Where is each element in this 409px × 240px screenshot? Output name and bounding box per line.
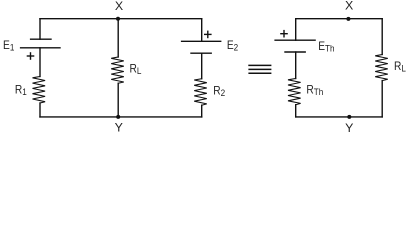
resistor RL (left circuit) — [111, 57, 124, 83]
battery E2 — [182, 41, 221, 53]
svg-text:Y: Y — [115, 121, 123, 135]
node X (left circuit) — [116, 17, 120, 21]
wire: RL to node Y — [117, 83, 119, 117]
svg-text:X: X — [115, 0, 123, 13]
wire: R2 to bottom rail — [201, 105, 203, 117]
resistor RTh — [288, 79, 301, 105]
wire: R1 to bottom rail — [39, 103, 41, 117]
battery ETh — [275, 40, 315, 52]
wire: top rail down to ETh — [295, 19, 297, 41]
wire: E2 to R2 — [201, 53, 203, 78]
svg-text:X: X — [345, 0, 353, 13]
polarity + of E2 — [205, 31, 211, 37]
resistor R2 — [194, 79, 207, 106]
wire: right circuit bottom rail (Y) — [296, 116, 383, 118]
battery E1 — [21, 39, 60, 48]
node X (right circuit) — [346, 17, 350, 21]
svg-text:E2: E2 — [227, 39, 238, 52]
wire: left circuit bottom rail (Y) — [40, 116, 202, 118]
svg-text:Y: Y — [345, 121, 353, 135]
equivalence symbol — [248, 65, 271, 73]
svg-text:RL: RL — [130, 63, 142, 76]
wire: node X to RL — [117, 19, 119, 57]
wire: RTh to bottom rail — [295, 105, 297, 117]
node Y (left circuit) — [116, 115, 120, 119]
svg-text:RTh: RTh — [306, 84, 323, 97]
svg-text:E1: E1 — [3, 39, 14, 52]
wire: E1 branch top (top rail down to E1) — [39, 19, 41, 40]
svg-text:R1: R1 — [15, 84, 27, 97]
wire: RL to bottom rail (right circuit) — [381, 81, 383, 117]
wire: ETh to RTh — [295, 52, 297, 79]
svg-text:R2: R2 — [213, 85, 225, 98]
node Y (right circuit) — [347, 115, 351, 119]
wire: top rail down to RL (right circuit) — [381, 19, 383, 55]
svg-text:ETh: ETh — [318, 40, 334, 53]
wire: left circuit top rail (X) — [40, 18, 202, 20]
wire: E1 to R1 — [39, 48, 41, 77]
resistor RL (right circuit) — [375, 55, 388, 81]
wire: E2 branch top (top rail down to E2) — [201, 19, 203, 42]
svg-text:RL: RL — [394, 60, 406, 73]
polarity + of ETh — [281, 31, 287, 37]
wire: right circuit top rail (X) — [296, 18, 383, 20]
resistor R1 — [33, 77, 46, 104]
polarity + of E1 — [27, 53, 33, 59]
